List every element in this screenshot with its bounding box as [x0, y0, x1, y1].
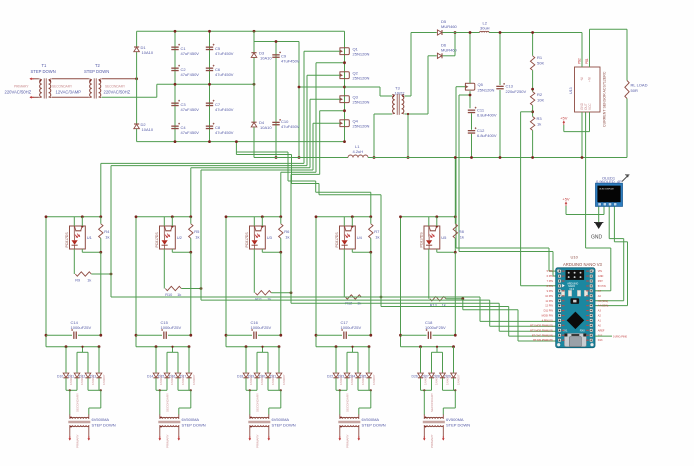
- svg-text:SECONDARY: SECONDARY: [256, 393, 260, 412]
- svg-text:6V500MA: 6V500MA: [272, 417, 290, 422]
- svg-text:47uF450V: 47uF450V: [181, 51, 200, 56]
- svg-text:1k: 1k: [460, 235, 464, 240]
- svg-text:STEP DOWN: STEP DOWN: [84, 69, 109, 74]
- svg-text:4.2uH: 4.2uH: [353, 149, 364, 154]
- svg-text:7 PIN: 7 PIN: [547, 280, 553, 283]
- svg-text:6V500MA: 6V500MA: [92, 417, 110, 422]
- svg-text:47uF450V: 47uF450V: [215, 72, 234, 77]
- svg-text:25N120N: 25N120N: [353, 52, 370, 57]
- svg-text:10K: 10K: [537, 98, 544, 103]
- svg-text:PRIMARY: PRIMARY: [76, 434, 80, 448]
- svg-text:6V500MA: 6V500MA: [446, 417, 464, 422]
- svg-text:D24: D24: [349, 375, 355, 379]
- svg-text:D19: D19: [248, 375, 254, 379]
- svg-text:D25: D25: [360, 375, 366, 379]
- svg-text:47uF450V: 47uF450V: [281, 59, 300, 64]
- svg-text:12 PIN: 12 PIN: [545, 305, 553, 308]
- svg-text:STEP DOWN: STEP DOWN: [272, 423, 296, 428]
- svg-text:47uF450V: 47uF450V: [215, 107, 234, 112]
- svg-text:D27: D27: [423, 375, 429, 379]
- svg-text:6V500MA: 6V500MA: [362, 417, 380, 422]
- svg-text:SECONDARY: SECONDARY: [52, 85, 73, 89]
- svg-text:+5V: +5V: [560, 116, 568, 121]
- svg-text:47uF450V: 47uF450V: [181, 107, 200, 112]
- svg-text:1k: 1k: [375, 235, 379, 240]
- svg-text:R8: R8: [459, 229, 465, 234]
- svg-text:1k: 1k: [285, 235, 289, 240]
- svg-text:R4: R4: [104, 229, 110, 234]
- svg-text:RL LOAD: RL LOAD: [631, 83, 648, 88]
- svg-text:10A10: 10A10: [142, 50, 154, 55]
- svg-text:1k: 1k: [195, 235, 199, 240]
- svg-text:R9: R9: [75, 279, 80, 283]
- svg-text:SECONDARY: SECONDARY: [105, 85, 126, 89]
- svg-text:SECONDARY: SECONDARY: [346, 393, 350, 412]
- svg-text:D12: D12: [79, 375, 85, 379]
- svg-text:D14: D14: [147, 375, 153, 379]
- svg-text:D15: D15: [158, 375, 164, 379]
- svg-text:T2: T2: [95, 63, 101, 68]
- svg-text:OLED DISPLAY: OLED DISPLAY: [599, 188, 614, 191]
- svg-text:11 PIN: 11 PIN: [545, 300, 553, 303]
- svg-text:6.8uF400V: 6.8uF400V: [477, 113, 497, 118]
- svg-text:BT CHG PWM(U4): BT CHG PWM(U4): [532, 334, 553, 337]
- svg-text:PRIMARY: PRIMARY: [166, 434, 170, 448]
- svg-text:1N4007: 1N4007: [192, 374, 196, 385]
- svg-text:0 (RX) PIN0: 0 (RX) PIN0: [613, 334, 628, 338]
- svg-text:D17: D17: [180, 375, 186, 379]
- svg-text:1N4007: 1N4007: [282, 374, 286, 385]
- svg-text:R2: R2: [537, 92, 543, 97]
- svg-text:1000uF25V: 1000uF25V: [71, 325, 92, 330]
- svg-text:12VAC/3AMP: 12VAC/3AMP: [56, 90, 82, 95]
- svg-text:1k: 1k: [537, 122, 541, 127]
- svg-text:U5: U5: [441, 235, 447, 240]
- svg-text:C13: C13: [506, 84, 514, 89]
- svg-text:STEP DOWN: STEP DOWN: [92, 423, 116, 428]
- svg-text:PC817DS: PC817DS: [420, 232, 424, 248]
- svg-text:RST: RST: [598, 280, 603, 283]
- svg-text:R3: R3: [537, 116, 543, 121]
- svg-text:GND: GND: [591, 235, 603, 241]
- svg-text:25N120N: 25N120N: [478, 88, 495, 93]
- svg-text:10/22: 10/22: [395, 91, 406, 96]
- svg-text:PC817DS: PC817DS: [245, 232, 249, 248]
- svg-text:PRIMARY: PRIMARY: [256, 434, 260, 448]
- svg-text:D26: D26: [412, 375, 418, 379]
- svg-text:1000uF25V: 1000uF25V: [251, 325, 272, 330]
- svg-text:5 PIN: 5 PIN: [547, 270, 553, 273]
- svg-text:47uF450V: 47uF450V: [181, 72, 200, 77]
- svg-text:U3: U3: [267, 235, 273, 240]
- svg-text:PC817DS: PC817DS: [155, 232, 159, 248]
- svg-text:MOSI PIN: MOSI PIN: [542, 315, 553, 318]
- svg-text:PRIMARY: PRIMARY: [430, 434, 434, 448]
- svg-text:1k: 1k: [105, 235, 109, 240]
- svg-text:STEP DOWN: STEP DOWN: [362, 423, 386, 428]
- svg-text:ARDUINO NANO V3: ARDUINO NANO V3: [563, 262, 603, 267]
- svg-text:D20: D20: [259, 375, 265, 379]
- svg-text:SECONDARY: SECONDARY: [430, 393, 434, 412]
- svg-text:25N120N: 25N120N: [353, 76, 370, 81]
- svg-text:U10: U10: [571, 255, 579, 260]
- svg-text:Q5: Q5: [478, 82, 484, 87]
- svg-text:10A10: 10A10: [260, 56, 272, 61]
- svg-text:D11: D11: [68, 375, 74, 379]
- svg-text:D10: D10: [57, 375, 63, 379]
- svg-text:PC817DS: PC817DS: [65, 232, 69, 248]
- svg-text:220VAC/50HZ: 220VAC/50HZ: [5, 90, 32, 95]
- svg-text:PRIMARY: PRIMARY: [14, 85, 29, 89]
- svg-text:220VAC/50HZ: 220VAC/50HZ: [104, 90, 131, 95]
- svg-text:10A10: 10A10: [142, 127, 154, 132]
- svg-text:D28: D28: [434, 375, 440, 379]
- svg-text:50K: 50K: [537, 61, 544, 66]
- svg-text:47uF450V: 47uF450V: [181, 130, 200, 135]
- svg-text:1000uF25V: 1000uF25V: [425, 325, 446, 330]
- svg-text:U2: U2: [177, 235, 183, 240]
- svg-text:4 PIN(U1): 4 PIN(U1): [542, 320, 553, 323]
- svg-text:A4 (SDA): A4 (SDA): [598, 305, 609, 308]
- svg-text:R5: R5: [194, 229, 200, 234]
- svg-text:220uF250V: 220uF250V: [506, 89, 527, 94]
- svg-text:D13: D13: [598, 339, 603, 342]
- svg-text:47uF450V: 47uF450V: [215, 130, 234, 135]
- svg-text:T1: T1: [42, 63, 48, 68]
- svg-text:30uH: 30uH: [480, 26, 490, 31]
- svg-text:25N120N: 25N120N: [353, 100, 370, 105]
- svg-text:8 PIN: 8 PIN: [547, 285, 553, 288]
- svg-text:BT1 MOS PWM(U2): BT1 MOS PWM(U2): [530, 324, 553, 327]
- svg-text:P$2: P$2: [578, 58, 582, 64]
- svg-text:D18: D18: [237, 375, 243, 379]
- svg-text:PC817DS: PC817DS: [335, 232, 339, 248]
- svg-text:P$1: P$1: [585, 58, 589, 64]
- svg-text:47uF450V: 47uF450V: [215, 51, 234, 56]
- svg-text:GND: GND: [598, 275, 604, 278]
- svg-text:U1: U1: [87, 235, 93, 240]
- svg-text:VIN: VIN: [598, 270, 602, 273]
- svg-text:D29: D29: [445, 375, 451, 379]
- svg-text:1N4007: 1N4007: [456, 374, 460, 385]
- svg-text:25N120N: 25N120N: [353, 124, 370, 129]
- svg-text:SECONDARY: SECONDARY: [76, 393, 80, 412]
- svg-text:D16: D16: [169, 375, 175, 379]
- svg-text:STEP DOWN: STEP DOWN: [31, 69, 56, 74]
- svg-text:U13: U13: [569, 87, 573, 94]
- svg-text:STEP DOWN: STEP DOWN: [446, 423, 470, 428]
- svg-text:STEP DOWN: STEP DOWN: [182, 423, 206, 428]
- svg-text:0.96OLED_4P: 0.96OLED_4P: [596, 179, 622, 184]
- svg-text:CURRENT SENSOR ACS712ERC: CURRENT SENSOR ACS712ERC: [603, 71, 607, 127]
- svg-text:U4: U4: [357, 235, 363, 240]
- svg-text:+5V: +5V: [562, 197, 570, 202]
- svg-text:PRIMARY: PRIMARY: [346, 434, 350, 448]
- svg-text:IN-: IN-: [580, 77, 584, 81]
- svg-text:47uF450V: 47uF450V: [281, 124, 300, 129]
- svg-text:D13: D13: [90, 375, 96, 379]
- svg-text:6.8uF400V: 6.8uF400V: [477, 133, 497, 138]
- svg-text:5V PIN: 5V PIN: [598, 285, 606, 288]
- svg-text:D23: D23: [338, 375, 344, 379]
- svg-text:10 PIN: 10 PIN: [545, 295, 553, 298]
- svg-text:AREF: AREF: [598, 329, 605, 332]
- svg-text:VCC: VCC: [588, 103, 592, 110]
- svg-text:50R: 50R: [631, 88, 638, 93]
- svg-text:1k: 1k: [267, 297, 271, 301]
- svg-text:D11 PIN: D11 PIN: [544, 310, 553, 313]
- svg-text:BT2 MOS PWM(U3): BT2 MOS PWM(U3): [530, 329, 553, 332]
- svg-text:1N4007: 1N4007: [372, 374, 376, 385]
- svg-text:6 PIN: 6 PIN: [547, 275, 553, 278]
- svg-text:R6: R6: [284, 229, 290, 234]
- svg-text:R11: R11: [255, 297, 262, 301]
- svg-text:10A10: 10A10: [260, 125, 272, 130]
- svg-text:1N4007: 1N4007: [102, 374, 106, 385]
- svg-text:R1: R1: [537, 55, 543, 60]
- svg-text:1000uF25V: 1000uF25V: [161, 325, 182, 330]
- svg-text:MUR460: MUR460: [441, 24, 458, 29]
- svg-text:RX0: RX0: [580, 328, 586, 332]
- svg-text:IN+: IN+: [587, 77, 591, 82]
- svg-text:R7: R7: [374, 229, 380, 234]
- svg-text:1k: 1k: [87, 279, 91, 283]
- svg-text:D22: D22: [327, 375, 333, 379]
- svg-text:1000uF25V: 1000uF25V: [341, 325, 362, 330]
- svg-text:SECONDARY: SECONDARY: [166, 393, 170, 412]
- svg-text:6V500MA: 6V500MA: [182, 417, 200, 422]
- svg-text:D21: D21: [270, 375, 276, 379]
- svg-text:A5 (SCL): A5 (SCL): [598, 300, 608, 303]
- svg-text:BT DIS PWM(U5): BT DIS PWM(U5): [533, 339, 553, 342]
- svg-text:9 PIN: 9 PIN: [547, 290, 553, 293]
